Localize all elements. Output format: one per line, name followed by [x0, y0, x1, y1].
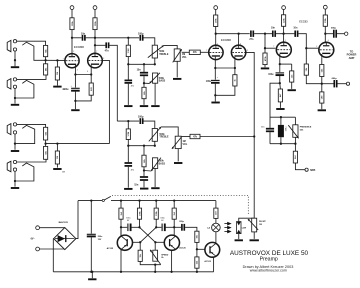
terminal B+ V1a: [70, 6, 74, 10]
node slope I: [127, 37, 129, 39]
svg-text:1M: 1M: [62, 172, 65, 174]
junction rail 250u: [90, 199, 92, 201]
wire J4 tip to R4: [17, 159, 46, 162]
wire node to 1M: [56, 60, 58, 67]
ground jack J4: [11, 187, 19, 189]
junction presence bottom right: [294, 143, 296, 145]
ground 470k: [261, 67, 269, 69]
wire collector lead Q2: [173, 227, 175, 236]
resistor 100k plate V1b: [93, 18, 97, 30]
wire black cap stem top: [280, 117, 282, 125]
resistor R5 1M grid leak: [55, 67, 59, 80]
wire speed U link: [140, 261, 161, 264]
wire tone bus I: [128, 63, 155, 65]
resistor 820R cathode V1: [89, 83, 93, 95]
input jack J1 (channel I): [7, 40, 16, 52]
svg-text:1: 1: [285, 40, 286, 42]
wire NFB node to cap: [322, 83, 334, 85]
svg-text:10n: 10n: [81, 32, 86, 35]
svg-text:100u: 100u: [268, 74, 274, 76]
terminal B+ V1b: [93, 6, 97, 10]
wire cathode bus to 820R: [90, 75, 92, 84]
potentiometer 500k BASS I: [149, 73, 160, 84]
node cathode V3a: [279, 63, 281, 65]
svg-text:LA: LA: [207, 227, 210, 230]
bridge rectifier B40C225: [54, 228, 76, 250]
wire 100u to node: [279, 76, 281, 83]
wire J3 sleeve to ground: [14, 134, 16, 150]
wire 100p to treble pot I: [144, 38, 155, 45]
wire 820R to node: [75, 95, 91, 101]
ground jack J3: [11, 150, 19, 152]
wire node to resistor: [279, 83, 282, 89]
capacitor 100u Cb: [162, 224, 166, 232]
wire collector Q2 to 220p: [174, 226, 181, 228]
resistor base Q2 100k: [137, 208, 141, 219]
resistor 47k I: [189, 50, 200, 54]
ground cathode V1: [71, 109, 79, 111]
junction bus II left: [127, 145, 129, 147]
capacitor 220p: [181, 224, 185, 231]
svg-text:1M: 1M: [183, 141, 186, 143]
junction presence top: [280, 116, 282, 118]
wire riser to tone II: [117, 120, 139, 122]
potentiometer 1M VOL II: [172, 136, 182, 149]
node NFB: [321, 83, 323, 85]
node cathode ground V1: [74, 100, 76, 102]
junction base divider rail: [196, 271, 198, 273]
resistor 1k cathode V2: [233, 75, 237, 86]
wire 100k to plate V1b: [94, 30, 96, 54]
junction bus I mid: [143, 63, 145, 65]
svg-text:PRESENCE: PRESENCE: [300, 127, 312, 129]
node 47n tap V1b: [94, 44, 96, 46]
terminal to power amp: [345, 32, 348, 35]
svg-text:VOL: VOL: [183, 144, 188, 146]
svg-text:7: 7: [273, 46, 274, 48]
transistor Q2 AC125: [164, 235, 179, 250]
wire 1.5M to bus I: [127, 57, 129, 65]
wire speed to rail: [154, 265, 156, 272]
svg-text:1: 1: [217, 44, 218, 46]
terminal B+ V3a: [282, 6, 286, 10]
wire grid bus channel II: [46, 143, 110, 145]
terminal B+ V3b: [323, 5, 327, 9]
wire resistor to ground: [279, 102, 281, 108]
wire grid node to R4: [45, 144, 47, 147]
wire black cap stem bottom: [280, 137, 282, 144]
wire emitter Q1 to rail: [120, 250, 122, 272]
wire grid node to 10k: [305, 48, 307, 64]
capacitor 100u Ca: [127, 224, 131, 232]
svg-text:10n: 10n: [293, 28, 298, 30]
wire cross to base Q1: [140, 227, 156, 242]
svg-text:B40C225: B40C225: [59, 221, 69, 224]
terminal AC 6V b: [36, 247, 40, 251]
capacitor 10n: [82, 35, 86, 41]
wire 82k to ground I: [143, 99, 145, 105]
wire cathode V2a: [214, 60, 216, 68]
svg-text:100u: 100u: [63, 89, 69, 91]
junction J2 sleeve: [14, 97, 16, 99]
capacitor 10n b: [294, 31, 298, 37]
svg-text:6: 6: [103, 58, 104, 60]
ground supply: [88, 278, 96, 280]
wire 27n to node: [254, 33, 272, 35]
wire B+ to 100k V1a: [71, 10, 73, 18]
capacitor 680p output: [333, 30, 337, 38]
resistor R1 68k: [44, 45, 48, 56]
junction speed wiper: [154, 264, 156, 266]
svg-text:1M: 1M: [57, 156, 59, 159]
resistor collector Q2 2k2: [172, 208, 176, 219]
wire node to Cb: [156, 226, 161, 228]
ground jack J2: [11, 104, 19, 106]
svg-text:6V~: 6V~: [31, 239, 36, 241]
wire rail to Rc: [155, 201, 157, 209]
wire Rb to node: [139, 219, 141, 227]
wire 10n to plate node V1b: [86, 37, 95, 39]
ground vol II: [174, 162, 182, 164]
wire plate line V2: [216, 33, 250, 35]
resistor 56k NFB: [320, 65, 324, 77]
svg-text:500k: 500k: [159, 134, 165, 136]
wire grid V2b to riser: [246, 52, 254, 218]
svg-text:TREBLE: TREBLE: [159, 54, 169, 56]
wire treble wiper to vol II: [161, 127, 178, 136]
potentiometer SPEED 2k: [150, 250, 161, 265]
wire cathode V3b: [321, 58, 323, 65]
resistor 15k speed: [138, 250, 142, 261]
resistor R3 68k: [44, 127, 48, 140]
resistor 1k5 cathode V3a: [290, 71, 294, 82]
svg-text:ECC83: ECC83: [299, 19, 308, 23]
wire plate stem V2b: [238, 34, 240, 46]
junction bus I left: [127, 63, 129, 65]
junction grid leak channel I: [56, 59, 58, 61]
wire treble I bottom: [154, 58, 156, 64]
wire cathode to 100u: [74, 75, 76, 88]
node cathode V2a: [214, 67, 216, 69]
lamp LA: [212, 223, 221, 232]
ground FB INT: [250, 239, 259, 241]
resistor 100R NFB: [320, 92, 324, 103]
wire 100R to ground: [321, 103, 323, 109]
svg-text:15n: 15n: [134, 183, 139, 186]
node grid V3a top: [264, 33, 266, 35]
wire slope node to 1.5M II: [127, 121, 129, 129]
wire base Q3: [197, 248, 205, 250]
wire 47n to riser: [109, 45, 117, 121]
svg-text:500k: 500k: [159, 161, 165, 163]
wire R3 to grid node: [45, 140, 47, 144]
svg-text:10n: 10n: [271, 28, 276, 30]
wire 1k5 stem top: [291, 64, 293, 71]
wire 100k V2 to plate line: [215, 27, 217, 34]
wire collector Q1 to Ca: [121, 226, 127, 228]
svg-text:500k: 500k: [159, 78, 165, 80]
wire 220k to plate: [283, 26, 285, 41]
node base feed Q1: [155, 226, 157, 228]
capacitor 15n I: [140, 72, 148, 76]
transistor Q1 AC125: [117, 235, 132, 250]
wire divider to base node: [196, 242, 198, 249]
wire B+ to 100k V3b: [324, 9, 326, 15]
svg-text:www.albertkreuzer.com: www.albertkreuzer.com: [250, 268, 287, 272]
wire bus to 82k II: [143, 146, 145, 156]
junction ground stem: [91, 271, 93, 273]
wire emitter Q3 to rail: [213, 257, 215, 272]
ground 100R: [318, 109, 326, 111]
ground vol I: [173, 78, 181, 80]
svg-text:ECC808: ECC808: [221, 38, 231, 42]
capacitor 47n bass II: [125, 162, 133, 167]
wire node to grid top: [264, 34, 266, 49]
svg-text:220p: 220p: [179, 221, 184, 223]
junction bus II mid: [143, 145, 145, 147]
node slope II: [127, 120, 129, 122]
wire Ca to Rb node: [131, 226, 139, 228]
wire vol II to ground: [177, 149, 179, 162]
svg-text:100p: 100p: [138, 116, 144, 119]
svg-text:8: 8: [87, 71, 88, 73]
wire J1 tip to R1: [17, 41, 46, 45]
junction emitter Q2 rail: [170, 271, 172, 273]
potentiometer FB INT: [248, 218, 258, 232]
svg-text:BASS: BASS: [159, 80, 166, 83]
input jack J3 (channel II): [7, 123, 16, 135]
junction bus II right: [154, 145, 156, 147]
wire cathode bus V1: [75, 74, 91, 76]
potentiometer 500k TREBLE I: [148, 45, 164, 58]
resistor 100k plate V3b: [323, 15, 327, 26]
resistor 10k NFB: [304, 64, 308, 75]
junction J4 sleeve: [14, 180, 16, 182]
wire presence top line: [270, 116, 295, 118]
triode V3a: [276, 42, 291, 57]
svg-text:15n: 15n: [137, 68, 142, 71]
wire 15n II to ground: [143, 181, 145, 188]
wire 100k to plate V1a: [71, 30, 73, 54]
wire 1k5 to ground: [291, 82, 293, 89]
ground jack J1: [11, 66, 19, 68]
wire 10k to NFB node: [306, 75, 322, 84]
node cathode V1a: [74, 73, 76, 75]
wire node to 82k I: [143, 83, 145, 87]
ground 82k I: [140, 105, 148, 107]
wire 47k II to riser V2b: [200, 136, 254, 138]
svg-text:15V: 15V: [98, 239, 102, 241]
capacitor 100p treble II: [139, 118, 143, 124]
transistor Q3 AC122: [205, 242, 220, 257]
node grid V1b feed: [44, 142, 46, 144]
capacitor 100u cathode V1: [71, 88, 80, 92]
junction gnd rail 250u: [90, 271, 92, 273]
svg-text:BASS: BASS: [159, 163, 166, 166]
wire 250u to gnd rail: [90, 237, 92, 271]
wire 47k I to grid V2a: [200, 51, 208, 53]
wire vol I to ground: [176, 61, 178, 77]
wire Rc to node: [155, 219, 157, 227]
terminal NFB: [305, 168, 308, 171]
potentiometer PRESENCE 50k: [288, 125, 298, 139]
resistor collector Q1 2k2: [119, 208, 123, 219]
wire lamp R to lamp: [215, 218, 217, 223]
resistor 100k plate V1a: [70, 18, 74, 30]
wire base node to lower R: [196, 249, 198, 257]
junction grid leak channel II: [56, 142, 58, 144]
wire cathode bus V2: [215, 67, 235, 69]
triode V1a: [65, 54, 79, 68]
wire presence pot top: [294, 117, 296, 125]
node base feed Q2: [138, 226, 140, 228]
potentiometer 500k BASS II: [151, 158, 161, 171]
wire cap to output terminal: [337, 33, 345, 35]
capacitor 100u electrolytic presence: [278, 125, 284, 137]
terminal B+ V2: [214, 6, 218, 10]
wire 56k to node: [321, 77, 323, 84]
wire plate stem V2a: [215, 34, 217, 46]
junction J3 sleeve: [14, 142, 16, 144]
junction J1 sleeve: [14, 59, 16, 61]
svg-text:100p: 100p: [138, 32, 144, 35]
wire B+ to 100k V1b: [94, 10, 96, 18]
junction speed rail: [154, 271, 156, 273]
wire 10n b to corner: [298, 34, 318, 49]
capacitor 47n: [105, 42, 109, 48]
resistor 47k II: [190, 134, 200, 138]
capacitor 100u presence: [276, 72, 285, 76]
wire bus to 1k V2: [234, 68, 236, 75]
wire plate line to tone I: [95, 37, 139, 39]
svg-text:VOL: VOL: [182, 57, 187, 59]
wire Cb to collector Q2: [165, 226, 174, 228]
ground cathode V2: [211, 102, 219, 104]
ground 1M channel II: [53, 168, 61, 170]
svg-text:7: 7: [206, 50, 207, 52]
wire treble II bottom: [154, 141, 156, 145]
svg-text:AMP: AMP: [349, 56, 355, 60]
node bass wiper I: [143, 82, 145, 84]
svg-text:AC125: AC125: [179, 247, 186, 250]
svg-text:47n: 47n: [105, 50, 110, 53]
junction emitter Q1 rail: [120, 271, 122, 273]
svg-text:3: 3: [77, 70, 78, 72]
resistor 470k grid V3a: [263, 53, 267, 65]
svg-text:7: 7: [96, 51, 97, 53]
junction rail Ra: [120, 199, 122, 201]
wire 100u V2 to node: [214, 84, 216, 96]
wire treble wiper to vol I: [164, 45, 177, 49]
svg-text:6: 6: [328, 40, 329, 42]
wire cathode V1b: [90, 68, 92, 75]
wire bus to 15n I: [143, 64, 145, 72]
svg-text:2: 2: [316, 46, 317, 48]
node grid V3a: [264, 47, 266, 49]
wire bass wiper II: [144, 170, 151, 173]
terminal NFB input: [346, 82, 349, 85]
resistor lamp dropper: [214, 208, 218, 218]
wire presence bottom line: [270, 143, 295, 145]
wire node to 15n II: [143, 171, 145, 177]
potentiometer 500k TREBLE II: [149, 127, 161, 141]
wire presence left leg: [270, 83, 280, 128]
junction rail Rc: [155, 199, 157, 201]
wire rail to Rd: [173, 201, 175, 209]
svg-text:NFB: NFB: [310, 169, 315, 172]
wire 220p to base divider: [185, 227, 197, 231]
capacitor 680p NFB: [333, 80, 337, 87]
jack J2 switch contact: [15, 80, 34, 98]
ground bass pot I: [151, 105, 159, 107]
wire 1k V2 to node: [215, 86, 235, 95]
svg-text:ECC808: ECC808: [74, 45, 84, 49]
svg-text:1.5M: 1.5M: [128, 48, 130, 53]
ground bass cap II: [124, 188, 132, 190]
wire slope node to 1.5M: [127, 38, 129, 45]
wire plate V1a to 10n: [72, 37, 82, 39]
svg-text:500k: 500k: [159, 51, 165, 53]
svg-text:250u: 250u: [98, 236, 103, 238]
capacitor 10n presence: [266, 128, 274, 132]
junction grid V3b: [305, 47, 307, 49]
svg-text:100u: 100u: [206, 81, 212, 83]
wire 82k to node II: [143, 167, 145, 171]
wire rail to Rb: [139, 201, 141, 209]
resistor 100k plate V2: [214, 15, 218, 27]
wire cap to NFB input: [338, 83, 347, 85]
capacitor 47n bass I: [125, 80, 133, 84]
wire bass cap II to ground: [127, 167, 129, 188]
resistor 82k II: [142, 155, 146, 167]
svg-text:100u: 100u: [286, 126, 288, 131]
capacitor 250u: [87, 234, 96, 238]
terminal AC 6V a: [36, 226, 40, 230]
wire lamp to collector Q3: [215, 232, 217, 244]
wire 100p to treble pot II: [144, 121, 155, 128]
wire base lead Q2: [155, 241, 164, 243]
wire FB INT to ground: [253, 232, 255, 239]
wire 10n to plate V3a: [276, 33, 294, 35]
ground 15n II: [140, 188, 148, 190]
wire ground rail: [53, 271, 213, 273]
wire bridge minus to rail: [52, 239, 54, 272]
capacitor 10n a: [272, 31, 276, 37]
wire rail to lamp R: [215, 201, 217, 209]
svg-text:2: 2: [73, 51, 74, 53]
wire J1 sleeve to ground: [14, 51, 16, 66]
ground 1k5: [288, 89, 296, 91]
wire grid node to 470k: [264, 48, 266, 53]
triode V1b: [88, 53, 103, 68]
wire B+ to 100k V2: [215, 9, 217, 15]
wire presence to 8k2: [294, 144, 296, 152]
resistor R6 1M grid leak: [55, 151, 59, 164]
node grid V1a: [44, 59, 46, 61]
svg-text:FB INT: FB INT: [259, 221, 266, 223]
wire J2 sleeve to ground: [14, 89, 16, 104]
resistor 1.5M slope I: [126, 45, 130, 56]
node bass wiper II: [143, 169, 145, 171]
triode V2a: [209, 45, 223, 59]
resistor 82k I: [142, 87, 146, 98]
junction tremolo riser: [253, 135, 255, 137]
wire 100u to node: [74, 92, 76, 101]
jack J3 switch contact: [15, 125, 35, 143]
wire 1M to ground: [56, 80, 58, 86]
wire grid V3a: [265, 47, 275, 49]
wire B+ to 220k: [283, 9, 285, 14]
